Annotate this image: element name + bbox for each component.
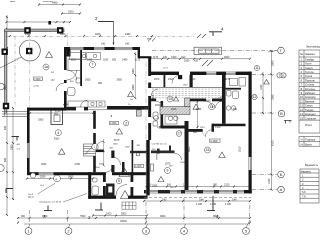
svg-text:3025: 3025 [95, 33, 101, 36]
svg-text:380: 380 [98, 82, 103, 85]
svg-text:1170: 1170 [153, 56, 159, 59]
svg-text:Он3: Он3 [162, 198, 167, 201]
svg-text:5,6: 5,6 [302, 190, 306, 194]
svg-text:12: 12 [300, 104, 303, 108]
svg-text:(1.800): (1.800) [210, 140, 218, 143]
svg-text:4980: 4980 [52, 2, 58, 5]
svg-text:1312: 1312 [157, 126, 163, 129]
svg-text:8100: 8100 [54, 138, 60, 141]
svg-text:3010: 3010 [239, 146, 242, 152]
svg-text:7: 7 [279, 74, 281, 78]
svg-text:3055: 3055 [85, 79, 91, 82]
svg-text:2060: 2060 [146, 184, 152, 187]
svg-text:1110: 1110 [71, 59, 77, 62]
svg-text:11: 11 [255, 66, 259, 70]
svg-text:14: 14 [168, 97, 172, 101]
svg-text:3000: 3000 [60, 33, 66, 36]
svg-text:3000: 3000 [160, 215, 166, 218]
svg-text:2970: 2970 [154, 78, 160, 81]
svg-text:500: 500 [4, 157, 7, 162]
svg-text:А: А [280, 187, 283, 192]
svg-text:1.180: 1.180 [225, 203, 232, 206]
svg-text:Коридор: Коридор [305, 112, 316, 116]
svg-text:600: 600 [4, 125, 7, 130]
svg-text:Он4: Он4 [232, 198, 237, 201]
svg-text:960: 960 [233, 108, 238, 111]
svg-text:1140: 1140 [196, 108, 202, 111]
svg-text:7: 7 [92, 63, 94, 67]
svg-text:1450: 1450 [268, 178, 271, 184]
svg-text:600: 600 [193, 131, 198, 134]
svg-text:2080: 2080 [10, 144, 13, 150]
svg-text:Коридор: Коридор [305, 95, 316, 99]
svg-text:Сануз.: Сануз. [305, 66, 314, 70]
svg-text:1.000: 1.000 [135, 165, 142, 168]
svg-text:4: 4 [221, 27, 224, 32]
svg-text:2.145: 2.145 [210, 203, 217, 206]
svg-text:1480: 1480 [125, 33, 131, 36]
svg-text:3620: 3620 [188, 146, 191, 152]
svg-text:Прихож.: Прихож. [305, 78, 316, 82]
svg-text:1.800: 1.800 [34, 78, 41, 81]
svg-text:3600: 3600 [68, 176, 74, 179]
svg-text:15000: 15000 [120, 220, 127, 223]
svg-text:6100: 6100 [271, 140, 274, 146]
svg-text:3080: 3080 [132, 68, 135, 74]
svg-text:Он4: Он4 [199, 198, 204, 201]
svg-text:Спальня: Спальня [305, 116, 316, 120]
svg-text:Н: Н [301, 138, 303, 142]
svg-text:1310: 1310 [183, 184, 189, 187]
svg-text:-0.700: -0.700 [33, 86, 40, 88]
svg-text:Он П: Он П [163, 67, 168, 69]
svg-text:Кухня: Кухня [305, 74, 313, 78]
svg-text:Ограждение за п.20.24: Ограждение за п.20.24 [39, 201, 62, 203]
svg-text:ф100: ф100 [63, 103, 69, 106]
svg-text:1180: 1180 [260, 84, 263, 90]
svg-text:2690: 2690 [271, 60, 274, 66]
svg-text:2: 2 [88, 215, 91, 220]
svg-text:Ванная: Ванная [305, 99, 315, 103]
svg-text:отм: отм [147, 38, 151, 41]
svg-text:1.000: 1.000 [110, 122, 117, 125]
svg-text:6: 6 [118, 179, 120, 183]
svg-text:9000: 9000 [213, 215, 219, 218]
svg-text:2913: 2913 [171, 108, 177, 111]
svg-text:1490: 1490 [25, 33, 31, 36]
svg-text:6720: 6720 [55, 110, 61, 113]
svg-text:Н: Н [301, 142, 303, 146]
svg-text:2410: 2410 [168, 78, 174, 81]
svg-text:2980: 2980 [132, 84, 135, 90]
svg-text:Столов.: Столов. [305, 83, 315, 87]
svg-text:Ведомость: Ведомость [305, 163, 319, 167]
svg-text:15: 15 [300, 116, 303, 120]
svg-text:1310: 1310 [224, 184, 230, 187]
svg-text:1а: 1а [44, 65, 48, 69]
svg-text:Терраса: Терраса [305, 138, 316, 142]
svg-text:7,8: 7,8 [302, 194, 306, 198]
svg-text:2585: 2585 [271, 94, 274, 100]
svg-text:Сануз.: Сануз. [305, 104, 314, 108]
svg-text:1000: 1000 [106, 213, 112, 216]
svg-text:2913: 2913 [152, 94, 155, 100]
svg-text:2: 2 [95, 16, 98, 21]
svg-text:280: 280 [213, 184, 218, 187]
svg-text:Гардер.: Гардер. [305, 108, 315, 112]
svg-text:Кабинет: Кабинет [305, 91, 316, 95]
svg-text:1170: 1170 [225, 78, 231, 81]
svg-text:№: № [300, 53, 303, 56]
svg-text:Наимен.: Наимен. [305, 52, 316, 56]
svg-text:2410: 2410 [220, 96, 226, 99]
svg-text:Всего: Всего [305, 142, 313, 146]
svg-text:Ст2 906 1Ст 10: Ст2 906 1Ст 10 [152, 144, 168, 146]
svg-text:1175: 1175 [135, 59, 141, 62]
svg-text:2090: 2090 [40, 176, 46, 179]
svg-text:Он1: Он1 [125, 42, 130, 45]
svg-text:420: 420 [194, 60, 199, 63]
svg-text:9: 9 [167, 169, 169, 173]
svg-text:3920: 3920 [224, 56, 230, 59]
svg-text:5070: 5070 [114, 139, 120, 142]
svg-text:1505: 1505 [87, 59, 93, 62]
svg-text:420: 420 [163, 56, 168, 59]
svg-text:Гостин.: Гостин. [305, 70, 314, 74]
svg-text:2: 2 [125, 121, 127, 125]
svg-text:2780: 2780 [75, 163, 81, 166]
svg-text:305: 305 [112, 59, 117, 62]
svg-text:1500: 1500 [68, 11, 74, 14]
svg-text:Б: Б [280, 172, 283, 177]
svg-text:7500: 7500 [80, 215, 86, 218]
svg-text:2913: 2913 [190, 78, 196, 81]
svg-text:Котельн.: Котельн. [305, 87, 316, 91]
svg-text:13: 13 [300, 108, 303, 112]
svg-text:2090: 2090 [41, 163, 47, 166]
svg-text:2913: 2913 [155, 104, 161, 107]
svg-text:4: 4 [57, 131, 59, 135]
svg-text:15: 15 [206, 148, 210, 152]
svg-text:Экспликация: Экспликация [306, 45, 320, 49]
svg-text:2085: 2085 [152, 184, 158, 187]
svg-text:Он1: Он1 [101, 42, 106, 45]
svg-text:2080: 2080 [38, 118, 44, 121]
svg-text:3055: 3055 [117, 79, 123, 82]
svg-text:Холл: Холл [305, 62, 312, 66]
svg-text:Итого: Итого [305, 123, 313, 127]
svg-text:Наимен.: Наимен. [301, 169, 311, 173]
svg-text:300: 300 [21, 215, 26, 218]
svg-text:Он2: Он2 [181, 56, 186, 59]
svg-text:(2.680): (2.680) [203, 100, 211, 103]
svg-text:молн: молн [10, 1, 16, 3]
svg-text:3300: 3300 [42, 215, 48, 218]
svg-text:10: 10 [300, 95, 303, 99]
svg-text:16: 16 [210, 105, 214, 109]
svg-text:1630: 1630 [184, 60, 190, 63]
svg-text:14: 14 [300, 112, 303, 116]
svg-text:В: В [280, 111, 283, 116]
svg-text:3980: 3980 [4, 84, 7, 90]
svg-text:(фС2): (фС2) [28, 195, 34, 198]
svg-text:1190: 1190 [103, 59, 109, 62]
svg-text:отмостка: отмостка [43, 1, 53, 3]
svg-text:1310: 1310 [215, 126, 221, 129]
svg-text:1.180: 1.180 [196, 203, 203, 206]
svg-text:Тамбур: Тамбур [305, 57, 315, 61]
svg-text:12: 12 [253, 95, 257, 99]
svg-text:5000: 5000 [121, 213, 127, 216]
svg-text:1480: 1480 [122, 59, 128, 62]
svg-text:17: 17 [177, 132, 181, 136]
svg-text:1920: 1920 [171, 56, 177, 59]
